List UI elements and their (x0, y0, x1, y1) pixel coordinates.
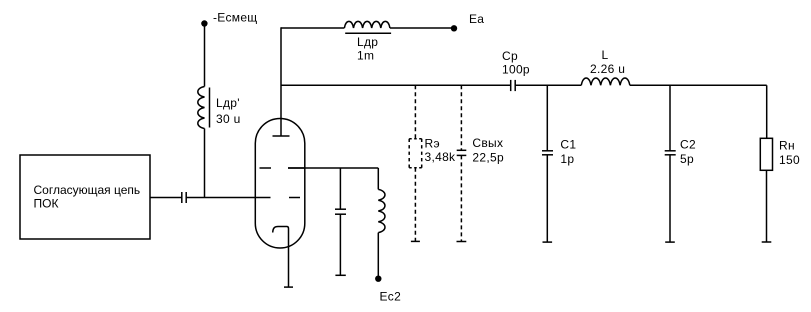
wire from coupling capacitor to tube grid (186, 197, 270, 199)
dashed lower lead of Rэ (414, 168, 416, 242)
terminal -Есмещ (201, 11, 257, 27)
resistor Rэ 3,48k (equivalent, dashed) (409, 137, 456, 168)
screen choke coil (378, 189, 385, 232)
resistor Rн 150 (load) (760, 138, 800, 170)
tube VL (tetrode) envelope (255, 119, 304, 249)
screen bypass capacitor end bar (335, 274, 345, 276)
Rн end bar (762, 241, 772, 243)
wire from Cp to L (515, 84, 581, 86)
wire down to C2 (669, 85, 671, 151)
C2 end bar (665, 241, 675, 243)
svg-text:Свых: Свых (472, 136, 503, 150)
inductor L 2.26u (581, 48, 630, 85)
wire from L to load corner (630, 84, 767, 86)
wire from choke to Ec2 terminal (377, 233, 379, 279)
wire down to Rн (766, 85, 768, 138)
inductor Lдр 1m (anode choke) (344, 21, 391, 62)
capacitor C2 5p (665, 138, 696, 167)
dashed lower lead of Свых (460, 155, 462, 241)
capacitor C1 1p (542, 138, 576, 167)
Rэ end bar (411, 240, 420, 242)
wire from -Есмещ down to Lдр' (204, 25, 206, 87)
wire from Lдр' down to grid wire (204, 129, 206, 198)
screen bypass capacitor lower lead (339, 214, 341, 275)
C2 lower lead (669, 155, 671, 242)
svg-text:1m: 1m (357, 49, 374, 63)
anode output wire (281, 84, 511, 86)
screen grid wire to the right (288, 167, 378, 169)
dashed lead to Rэ (414, 85, 416, 138)
svg-text:Ea: Ea (469, 12, 484, 26)
svg-text:22,5p: 22,5p (472, 150, 504, 164)
screen bypass capacitor (335, 209, 346, 214)
dashed lead to Свых (460, 85, 462, 150)
C1 lower lead (546, 155, 548, 242)
svg-text:2.26 u: 2.26 u (590, 62, 625, 76)
capacitor Свых 22,5p (equivalent, dashed) (457, 136, 504, 164)
svg-text:-Есмещ: -Есмещ (213, 11, 257, 25)
anode lead wire (280, 27, 282, 136)
terminal Ec2 (375, 276, 401, 304)
capacitor Cp 100p (502, 49, 530, 91)
svg-text:Rн: Rн (779, 139, 795, 153)
wire from block to coupling capacitor (150, 197, 182, 199)
coupling capacitor (182, 192, 186, 203)
block: matching network Согласующая цепь ПОК (20, 155, 150, 239)
svg-text:Cp: Cp (502, 49, 518, 63)
svg-text:C2: C2 (680, 138, 696, 152)
svg-text:150: 150 (779, 153, 800, 167)
svg-text:ПОК: ПОК (34, 197, 59, 211)
Свых end bar (457, 241, 467, 243)
svg-text:Lдр': Lдр' (216, 96, 240, 110)
svg-text:30 u: 30 u (216, 112, 241, 126)
svg-text:Rэ: Rэ (425, 137, 440, 151)
svg-text:5p: 5p (680, 152, 694, 166)
svg-text:C1: C1 (560, 138, 576, 152)
control grid dash (289, 197, 300, 199)
wire down to C1 (546, 85, 548, 151)
screen bypass capacitor lead (339, 168, 341, 209)
svg-text:100p: 100p (502, 63, 530, 77)
anode plate (273, 135, 290, 137)
svg-text:L: L (602, 48, 609, 62)
C1 end bar (543, 241, 553, 243)
terminal Ea (451, 12, 485, 31)
svg-text:Lдр: Lдр (357, 35, 378, 49)
screen grid dashes (260, 167, 306, 169)
wire from Lдр to Ea terminal (390, 27, 454, 29)
svg-text:Ec2: Ec2 (380, 290, 402, 304)
Rн lower lead (766, 170, 768, 242)
top feed wire from anode line (281, 27, 344, 29)
svg-text:3,48k: 3,48k (425, 150, 457, 164)
wire down to screen choke (377, 168, 379, 189)
svg-text:Согласующая цепь: Согласующая цепь (34, 183, 141, 197)
svg-text:1p: 1p (560, 152, 574, 166)
cathode (273, 227, 293, 288)
inductor Lдр' 30u (bias choke) (198, 87, 241, 129)
